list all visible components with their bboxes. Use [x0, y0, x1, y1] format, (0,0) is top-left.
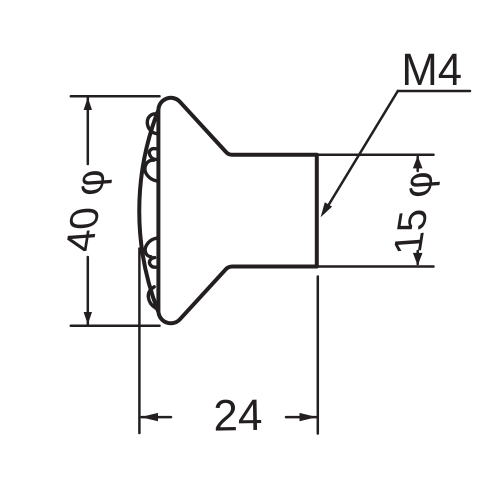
knurl bump A [147, 114, 157, 134]
arrowhead 24 right [300, 413, 317, 421]
extension line 24 right [317, 277, 320, 434]
leader line M4 diagonal [324, 91, 398, 213]
svg-text:15 φ: 15 φ [384, 170, 442, 256]
dimension line 15phi upper segment [416, 157, 419, 171]
svg-text:24: 24 [213, 391, 263, 441]
extension line 40phi bottom [71, 324, 160, 327]
svg-text:M4: M4 [401, 46, 462, 96]
extension line 40phi top [71, 95, 160, 98]
arrowhead 24 left [141, 413, 158, 421]
knob body outline [158, 98, 316, 323]
knurl bump B [145, 149, 156, 181]
arrowhead 40phi down [84, 312, 92, 325]
extension line 15phi bottom [317, 265, 434, 268]
arrowhead 15phi down [413, 253, 423, 266]
dimension line 40phi upper segment [87, 98, 90, 164]
dimension line 24 left segment [142, 416, 172, 419]
extension line 15phi top [317, 154, 434, 157]
arrowhead 40phi up [84, 97, 92, 110]
arrowhead 15phi up [413, 156, 423, 169]
knurl bump D [148, 287, 155, 308]
svg-text:40 φ: 40 φ [56, 168, 114, 254]
dimension line 15phi lower segment [416, 251, 419, 264]
arrowhead M4 leader [321, 202, 333, 217]
dimension line 24 right segment [286, 416, 316, 419]
knob dome arc [139, 111, 158, 311]
dimension line 40phi lower segment [87, 257, 90, 325]
knurl bump C [145, 238, 156, 267]
leader line M4 shoulder [398, 90, 470, 93]
extension line 24 left [138, 249, 141, 434]
